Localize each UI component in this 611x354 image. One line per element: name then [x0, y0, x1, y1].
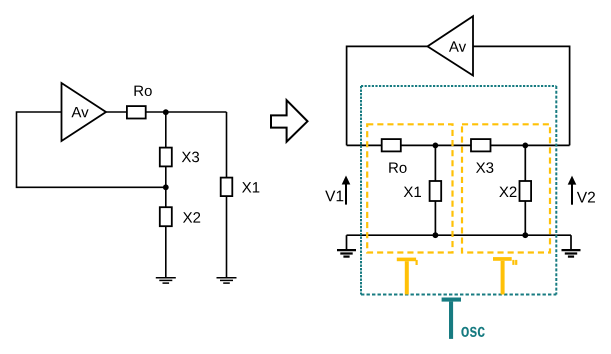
resistor Ro (left circuit) — [127, 106, 146, 118]
capacitor X2 (right circuit) — [520, 181, 532, 201]
two-port T'' box (yellow dashed, right) — [462, 124, 550, 252]
label V1 — [325, 191, 343, 202]
wire right ground stub — [570, 235, 572, 250]
wire op-amp output to right vertical — [473, 46, 570, 145]
marker T osc (teal) — [442, 298, 461, 339]
wire junction to X3 — [165, 112, 167, 148]
marker T' (yellow) — [397, 258, 418, 295]
label X2 — [499, 187, 516, 197]
arrow V2 — [568, 176, 577, 205]
oscillator boundary box (teal dotted) — [361, 86, 556, 295]
label Ro — [134, 86, 151, 96]
marker T'' (yellow) — [493, 257, 517, 294]
inductor X1 (left circuit) — [221, 178, 233, 197]
wire X1 to ground — [226, 196, 228, 278]
label Ro — [389, 162, 406, 172]
wire main horizontal (right circuit) — [347, 144, 570, 146]
node junction A — [163, 109, 169, 115]
inductor X1 (right circuit) — [430, 181, 442, 201]
ground (left circuit, under X1) — [217, 278, 237, 283]
arrow V1 — [342, 176, 351, 205]
wire Ro to X1 branch — [146, 111, 227, 113]
capacitor X3 (right circuit) — [471, 139, 491, 151]
node junction E — [433, 232, 439, 238]
wire X1 branch (right circuit) — [434, 145, 436, 235]
two-port T' box (yellow dashed, left) — [367, 124, 452, 252]
op-amp Av (right circuit) — [428, 16, 474, 75]
label X1 — [404, 187, 421, 197]
ground (right circuit, right) — [562, 250, 581, 257]
wire bottom rail (right circuit) — [347, 234, 572, 236]
label X3 — [182, 152, 199, 163]
label Av — [449, 41, 466, 51]
ground (right circuit, left) — [337, 250, 356, 257]
node junction D — [522, 143, 528, 149]
wire top feedback loop right circuit — [347, 46, 428, 145]
resistor Ro (right circuit) — [382, 139, 401, 151]
wire X3 to X2 — [165, 166, 167, 207]
wire X2 to ground — [165, 226, 167, 278]
capacitor X3 (left circuit) — [160, 148, 172, 167]
label osc — [461, 327, 484, 337]
node junction B — [163, 184, 169, 190]
block arrow (transformation) — [271, 100, 308, 142]
node junction F — [522, 232, 528, 238]
label X3 — [476, 162, 493, 173]
wire left ground stub — [346, 235, 348, 250]
wire feedback loop left circuit — [17, 112, 166, 187]
capacitor X2 (left circuit) — [160, 207, 172, 226]
node junction C — [433, 143, 439, 149]
wire X2 branch (right circuit) — [524, 145, 526, 235]
label X2 — [183, 212, 200, 222]
label Av — [71, 107, 88, 117]
wire X1 branch top — [226, 112, 228, 178]
op-amp Av (left circuit) — [62, 83, 107, 141]
label V2 — [577, 192, 595, 203]
ground (left circuit, under X2) — [156, 278, 176, 283]
label X1 — [242, 182, 259, 192]
wire op-amp output — [106, 111, 127, 113]
